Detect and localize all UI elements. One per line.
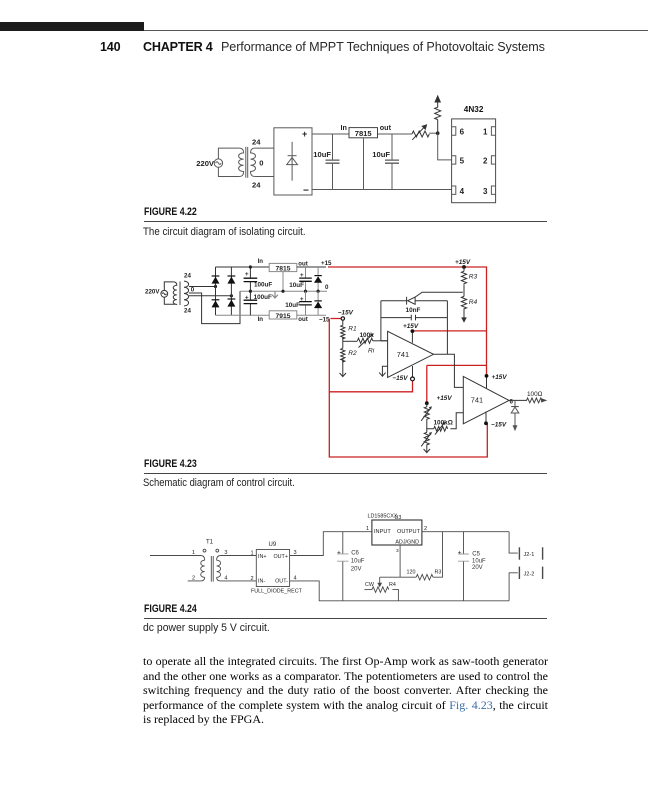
svg-text:2: 2 [251, 576, 254, 582]
svg-text:FULL_DIODE_RECT: FULL_DIODE_RECT [251, 588, 303, 594]
resistor R3 120 [407, 570, 442, 580]
wire T1 pin2 [188, 577, 205, 581]
svg-text:10nF: 10nF [406, 307, 421, 314]
wire to J2-1 [509, 532, 518, 553]
svg-text:3: 3 [224, 550, 227, 556]
svg-text:24: 24 [184, 272, 191, 279]
resistor R1 [341, 320, 357, 339]
potentiometer lower half [421, 429, 432, 447]
svg-text:+: + [458, 550, 462, 557]
svg-text:out: out [380, 123, 392, 132]
capacitor C5 [458, 532, 486, 601]
ground R2 [340, 359, 346, 376]
svg-text:+: + [245, 294, 249, 301]
output diode [511, 400, 519, 431]
diode D4 [227, 298, 235, 306]
svg-text:−15V: −15V [392, 375, 408, 382]
node +15V R3 [455, 259, 471, 269]
capacitor 100uF pos [244, 267, 273, 291]
transformer T primary coil [239, 148, 244, 176]
transformer core [179, 282, 181, 306]
transformer T secondary coil [251, 148, 256, 176]
wire ADJ right to R3 [400, 576, 416, 578]
caption figure 4.24 [144, 603, 197, 615]
wire to J2-2 [509, 573, 518, 601]
svg-text:120: 120 [407, 570, 416, 576]
R4 wiper arrow [377, 577, 382, 587]
diode D1 [212, 275, 220, 283]
optocoupler 4N32 box [452, 119, 496, 203]
svg-text:U9: U9 [269, 542, 277, 548]
wire U9 out+ [290, 532, 372, 556]
svg-text:3: 3 [396, 548, 399, 554]
wire dc bottom rail [216, 314, 270, 316]
svg-text:In: In [258, 316, 264, 323]
svg-text:IN-: IN- [258, 579, 265, 585]
node junction [436, 131, 440, 135]
svg-text:220V: 220V [196, 159, 215, 168]
svg-text:2: 2 [483, 157, 488, 166]
svg-text:+15V: +15V [492, 374, 508, 381]
svg-text:10uF: 10uF [472, 559, 486, 565]
diode clamp top [314, 267, 322, 291]
wire R3 to output rail [433, 532, 443, 578]
wire bottom tap to bridge [189, 295, 232, 297]
caption figure 4.22 [144, 206, 197, 218]
feedback box left [380, 301, 382, 341]
svg-text:24: 24 [252, 138, 261, 147]
polarity dot right [216, 549, 219, 552]
body paragraph [143, 654, 548, 727]
wire ADJ column [399, 545, 401, 577]
header text [100, 40, 120, 54]
wire ADJ left to wiper [380, 576, 400, 578]
potentiometer upper half [421, 403, 432, 421]
wire source loop [218, 148, 239, 176]
svg-text:−15V: −15V [338, 309, 354, 316]
svg-text:IN+: IN+ [258, 554, 267, 560]
wire pot wiper [427, 420, 434, 428]
pin 5 [452, 156, 465, 166]
T1 core [211, 556, 213, 582]
wire top tap to bridge [189, 286, 216, 288]
node R1 bottom [342, 338, 344, 349]
opamp2 +15V pin [485, 374, 508, 388]
wire opamp1 output [434, 354, 464, 387]
svg-text:R1: R1 [348, 326, 357, 333]
wire bottom rail [312, 189, 452, 191]
svg-text:ADJ/GND: ADJ/GND [395, 539, 419, 545]
svg-text:10uF: 10uF [372, 150, 390, 159]
wire secondary bottom tap to bridge [255, 176, 274, 178]
wire pot to node [429, 132, 437, 134]
svg-text:In: In [341, 123, 347, 132]
capacitor 100uF neg [244, 291, 272, 315]
svg-text:4N32: 4N32 [464, 105, 484, 114]
pin 6 [452, 127, 465, 137]
svg-text:6: 6 [510, 399, 514, 406]
capacitor 10nF [381, 307, 448, 320]
potentiometer R4 [364, 582, 398, 601]
wire dc top rail [216, 266, 270, 268]
svg-text:In: In [258, 258, 264, 265]
wire 7815 gnd [363, 138, 365, 189]
resistor R3 [461, 267, 477, 286]
wire bridge column1 [215, 267, 217, 315]
node cap top rail [249, 265, 252, 268]
capacitor 10uF pos [289, 267, 312, 291]
diode clamp bottom [314, 291, 322, 315]
svg-text:Ri: Ri [368, 348, 375, 355]
wire T1 pin1 [147, 556, 205, 561]
svg-text:T1: T1 [206, 540, 214, 546]
pin 1 [483, 127, 496, 137]
svg-text:2: 2 [192, 576, 195, 582]
connector J2-2 [519, 567, 542, 579]
wire secondary top tap to bridge [255, 147, 274, 149]
svg-text:+: + [245, 271, 249, 278]
node diode mid [317, 290, 320, 293]
wire R1R2 to pot [343, 340, 358, 342]
node bridge ac2 [230, 294, 233, 297]
node mid cap [249, 290, 252, 293]
regulator 7815 [349, 128, 378, 138]
transformer core [246, 147, 248, 178]
svg-text:10uF: 10uF [289, 282, 304, 289]
transformer primary coil [173, 282, 177, 304]
svg-text:20V: 20V [472, 565, 483, 571]
capacitor C out 10uF [372, 134, 399, 190]
svg-text:1: 1 [192, 550, 195, 556]
header black bar [0, 22, 144, 31]
feedback box right [446, 301, 448, 355]
wire top rail [312, 133, 349, 135]
ac source [214, 159, 222, 167]
opamp1 +15V pin [403, 323, 419, 343]
op-amp U2 741 [463, 376, 509, 423]
svg-text:C6: C6 [351, 551, 359, 557]
wire inv input [381, 340, 388, 342]
svg-text:out: out [298, 260, 307, 267]
regulator U3 box [372, 520, 422, 545]
wire to opamp2 noninv [450, 413, 463, 429]
node bridge ac1 [214, 285, 217, 288]
resistor 100ohm [527, 391, 548, 403]
wire opamp2 output [509, 399, 527, 401]
svg-text:1: 1 [483, 128, 488, 137]
svg-text:7815: 7815 [355, 129, 373, 138]
svg-text:R3: R3 [469, 273, 478, 280]
svg-text:100kΩ: 100kΩ [434, 420, 453, 427]
potentiometer Ri 100k [357, 332, 374, 354]
svg-text:6: 6 [460, 128, 465, 137]
svg-text:+15V: +15V [403, 323, 419, 330]
PUT transistor [407, 292, 463, 304]
T1 secondary corners [217, 556, 257, 581]
svg-text:J2-2: J2-2 [524, 571, 535, 577]
svg-text:CW: CW [365, 582, 375, 588]
svg-text:100uF: 100uF [254, 282, 272, 289]
svg-text:2: 2 [424, 526, 427, 532]
connector J2-1 [519, 547, 542, 559]
rectifier U9 box [256, 550, 289, 587]
potentiometer 100kohm horizontal [434, 420, 453, 435]
svg-text:OUT-: OUT- [275, 579, 288, 585]
opamp2 -15V pin [484, 412, 507, 429]
pin 4 [452, 186, 465, 196]
svg-text:5: 5 [460, 157, 465, 166]
svg-text:−15: −15 [319, 316, 330, 323]
polarity dot left [203, 549, 206, 552]
svg-text:J2-1: J2-1 [524, 552, 535, 558]
pin 3 [483, 186, 496, 196]
capacitor 10uF neg [285, 291, 312, 315]
svg-text:+: + [300, 296, 304, 303]
ac source [161, 290, 168, 297]
wire center tap underpass [189, 291, 240, 323]
svg-text:+15V: +15V [455, 259, 471, 266]
diode D2 [227, 275, 235, 283]
ground symbol mid [272, 291, 278, 298]
wire U3 output rail [422, 531, 509, 533]
resistor R4 [461, 296, 477, 310]
red bus +15 [328, 267, 487, 403]
wire R3 R4 junction [463, 286, 465, 297]
T1 primary coil [201, 560, 205, 577]
svg-text:24: 24 [184, 308, 191, 315]
svg-text:100Ω: 100Ω [527, 391, 543, 398]
svg-text:0: 0 [325, 284, 329, 291]
bridge rectifier box [274, 128, 312, 195]
svg-text:−15V: −15V [491, 422, 507, 429]
svg-text:+: + [300, 272, 304, 279]
wire 7815 gnd [282, 272, 284, 292]
svg-text:R4: R4 [389, 582, 396, 588]
node 7815 gnd [281, 290, 284, 293]
transformer secondary coil [184, 281, 189, 306]
svg-text:0: 0 [191, 286, 195, 293]
svg-text:7815: 7815 [276, 266, 291, 273]
wire node to pin5 [438, 133, 452, 160]
wire U9 out- to bottom rail [290, 581, 510, 601]
svg-text:INPUT: INPUT [374, 529, 391, 535]
svg-text:1: 1 [251, 550, 254, 556]
wire bridge column2 [230, 267, 232, 315]
svg-text:C5: C5 [472, 552, 480, 558]
svg-text:R3: R3 [435, 570, 442, 576]
svg-text:741: 741 [471, 395, 483, 404]
capacitor C6 [337, 532, 365, 601]
wire noninv input to ground [379, 366, 387, 376]
wire mid rail 0V [240, 290, 327, 292]
feedback top line [381, 300, 407, 302]
caption figure 4.23 [144, 458, 197, 470]
svg-text:10uF: 10uF [285, 302, 300, 309]
svg-text:out: out [298, 316, 307, 323]
op-amp U1 741 [388, 331, 434, 377]
diode inside bridge [287, 142, 298, 181]
wire pot to opamp [373, 340, 388, 342]
svg-text:OUTPUT: OUTPUT [397, 529, 421, 535]
regulator 7815 box [269, 263, 297, 271]
opamp1 -15V pin [392, 366, 414, 382]
pin 2 [483, 156, 496, 166]
node pot +15V [425, 395, 452, 405]
svg-text:100uF: 100uF [254, 294, 272, 301]
svg-text:24: 24 [252, 181, 261, 190]
resistor R2 [341, 348, 357, 362]
T1 secondary coil [217, 560, 221, 577]
rheostat R var [412, 125, 429, 140]
svg-text:4: 4 [224, 576, 227, 582]
ground pot [424, 446, 430, 453]
svg-text:20V: 20V [351, 566, 362, 572]
svg-text:R2: R2 [348, 350, 357, 357]
svg-text:0: 0 [259, 159, 263, 168]
svg-text:R4: R4 [469, 299, 478, 306]
svg-text:+: + [302, 129, 307, 139]
R4 down arrow [461, 310, 467, 323]
svg-text:3: 3 [483, 187, 488, 196]
wire -15 out rail [297, 314, 326, 316]
svg-text:+15V: +15V [437, 395, 453, 402]
svg-text:220V: 220V [145, 289, 160, 296]
node R1 top [341, 317, 344, 320]
svg-text:+15: +15 [321, 260, 332, 267]
svg-text:741: 741 [397, 350, 409, 359]
regulator 7915 box [269, 311, 297, 319]
capacitor C in 10uF [313, 134, 339, 190]
diode D3 [212, 299, 220, 307]
header thin rule [144, 30, 648, 31]
svg-text:1: 1 [366, 526, 369, 532]
svg-text:4: 4 [460, 187, 465, 196]
wire out rail [378, 133, 412, 135]
svg-text:100k: 100k [360, 332, 375, 339]
node 10uF mid [304, 290, 307, 293]
svg-text:LD1585CXX: LD1585CXX [368, 514, 398, 520]
resistor pullup vertical [435, 96, 441, 133]
svg-text:OUT+: OUT+ [273, 554, 288, 560]
red bus -15 [329, 319, 487, 458]
wire +15 out rail [297, 266, 326, 268]
svg-text:+: + [337, 549, 341, 556]
svg-text:7915: 7915 [276, 313, 291, 320]
svg-text:10uF: 10uF [313, 150, 331, 159]
wire source loop [164, 282, 173, 304]
svg-text:10uF: 10uF [351, 559, 365, 565]
svg-text:−: − [303, 186, 309, 197]
